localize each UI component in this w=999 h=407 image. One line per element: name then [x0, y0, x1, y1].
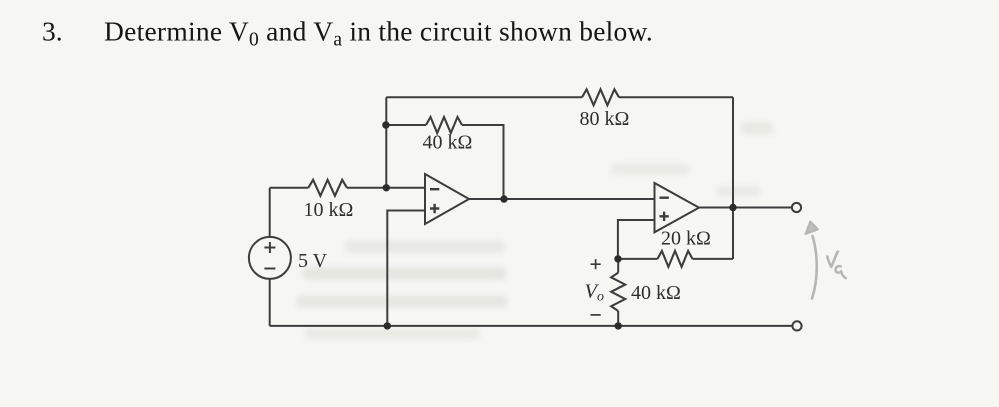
wire 20k left stub: [618, 258, 658, 260]
wire 40k right stub and down to op1 output: [462, 125, 504, 199]
svg-text:3.: 3.: [42, 15, 63, 46]
resistor 40k vertical zigzag: [611, 273, 625, 311]
svg-text:10 kΩ: 10 kΩ: [304, 199, 354, 221]
svg-text:20 kΩ: 20 kΩ: [661, 228, 711, 250]
wire op1 output to op2 inverting input: [469, 198, 655, 200]
wire source left vertical top: [269, 188, 271, 237]
op-amp U2 plus sign: [660, 212, 669, 221]
handwritten Va arrow arc: [812, 236, 817, 299]
junction Vo plus node: [614, 255, 621, 262]
wire 10k left stub: [270, 187, 309, 189]
wire op2 noninverting input: [618, 220, 655, 259]
wire Vo resistor bottom stub: [617, 311, 619, 326]
wire left vertical summing node: [385, 97, 387, 188]
wire Vo resistor top stub: [617, 259, 619, 273]
voltage source V1 circle: [249, 237, 291, 279]
wire source left vertical bottom: [269, 279, 271, 326]
svg-text:Determine V0 and Va in the cir: Determine V0 and Va in the circuit shown…: [104, 15, 653, 50]
wire op1 noninverting input: [387, 211, 425, 326]
wire top feedback right segment: [619, 96, 733, 98]
terminal top output: [792, 203, 801, 212]
op-amp U1 plus sign: [430, 204, 439, 213]
junction Vo bottom node: [615, 322, 622, 329]
junction op1 output / 40k: [500, 195, 507, 202]
svg-text:40 kΩ: 40 kΩ: [423, 132, 473, 154]
resistor 40k zigzag: [426, 117, 462, 133]
op-amp U2: [655, 183, 700, 232]
terminal bottom output: [792, 321, 801, 330]
label Vo minus polarity: [591, 314, 601, 316]
wire 40k left stub: [386, 124, 426, 126]
svg-text:5 V: 5 V: [298, 250, 328, 272]
junction ground tap: [384, 322, 391, 329]
label Vo plus polarity: [591, 259, 601, 269]
resistor 80k zigzag: [582, 89, 619, 105]
svg-text:80 kΩ: 80 kΩ: [580, 108, 630, 130]
svg-text:40 kΩ: 40 kΩ: [631, 282, 681, 304]
op-amp U1 minus sign: [430, 188, 439, 190]
op-amp U2 minus sign: [660, 196, 669, 198]
resistor 20k zigzag: [658, 251, 693, 267]
voltage source plus sign: [264, 242, 275, 253]
handwritten Va label: [827, 252, 838, 267]
junction op1 inverting node: [383, 184, 390, 191]
wire 10k to op1 inverting input: [347, 187, 425, 189]
junction op2 output node: [729, 204, 736, 211]
op-amp U1: [425, 174, 469, 224]
wire right vertical from top wire to 20k: [732, 97, 734, 259]
voltage source minus sign: [264, 268, 275, 270]
wire op2 output to terminal: [699, 207, 792, 209]
handwritten arrowhead: [806, 222, 818, 234]
wire top feedback left segment: [386, 96, 582, 98]
wire 20k right stub: [693, 258, 734, 260]
wire bottom rail: [270, 325, 793, 327]
resistor 10k zigzag: [308, 180, 347, 196]
junction 40k tap: [382, 121, 389, 128]
